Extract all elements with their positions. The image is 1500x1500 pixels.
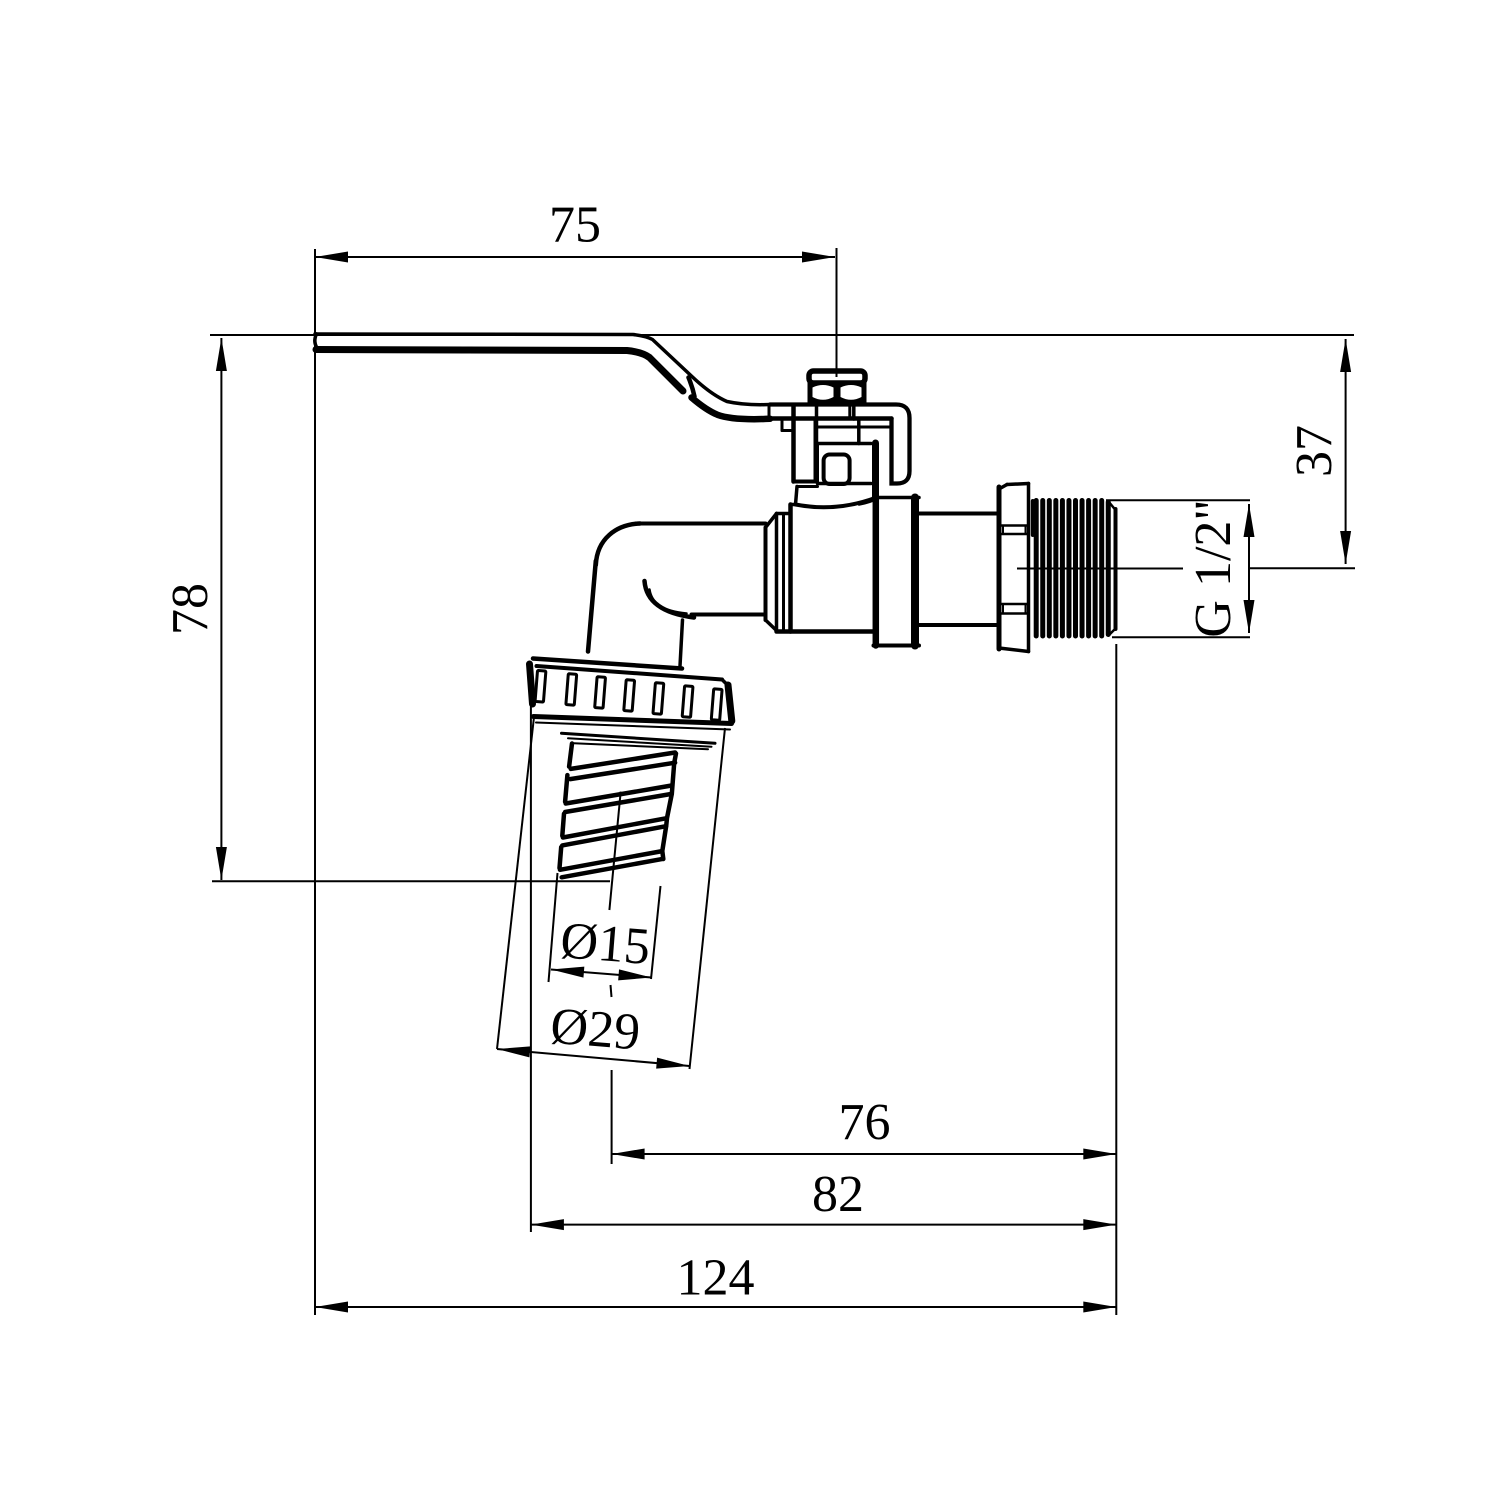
svg-text:76: 76 (839, 1094, 891, 1151)
svg-text:37: 37 (1286, 425, 1343, 477)
svg-text:124: 124 (677, 1250, 755, 1307)
svg-text:Ø15: Ø15 (558, 912, 652, 976)
svg-text:G 1/2": G 1/2" (1185, 499, 1242, 637)
svg-text:Ø29: Ø29 (548, 998, 642, 1062)
svg-text:82: 82 (812, 1166, 864, 1223)
svg-text:75: 75 (549, 197, 601, 254)
svg-text:78: 78 (162, 583, 219, 635)
